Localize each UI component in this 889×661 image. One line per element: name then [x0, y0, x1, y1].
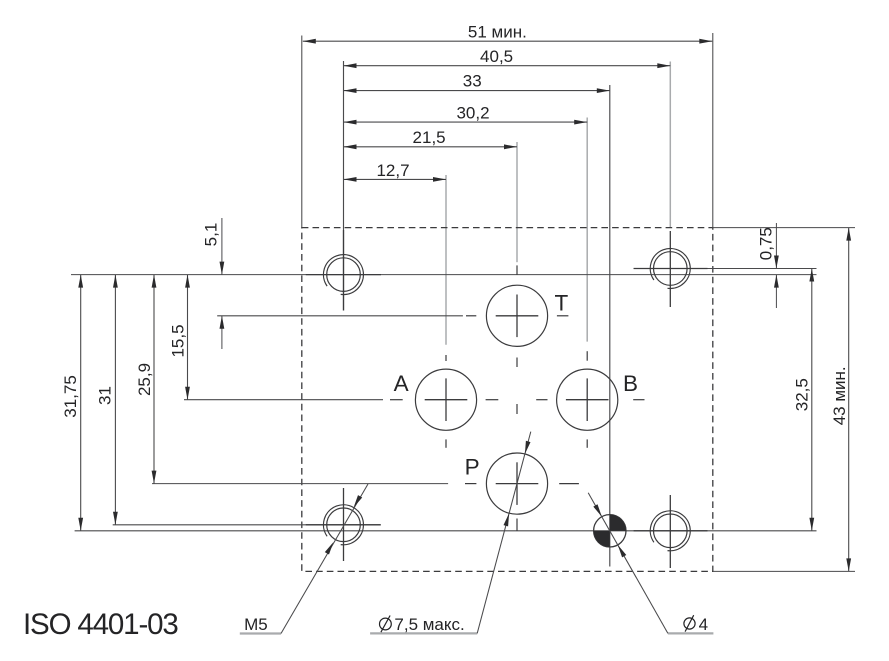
- port A circle: [415, 369, 476, 430]
- dimension line 51 min: [303, 40, 713, 42]
- plate top edge extension to right: [713, 227, 855, 229]
- plate bottom edge extension to right: [713, 570, 855, 572]
- dimension line 33: [344, 90, 610, 92]
- plate outline (dashed mounting surface boundary): [302, 228, 713, 572]
- mounting hole bottom-left (M5): [323, 505, 363, 545]
- dimension line 30.2: [344, 121, 588, 123]
- svg-text:33: 33: [463, 72, 482, 91]
- svg-text:A: A: [394, 371, 409, 396]
- extension line for 30.2 dim (port B centerline): [586, 118, 588, 342]
- extension line for 21.5 dim (port T centerline): [516, 142, 518, 262]
- mounting hole top-left (M5): [323, 255, 363, 295]
- dimension line 0.75 (outside arrows): [775, 223, 777, 269]
- centerline dash above port T: [516, 265, 518, 275]
- crosshair bottom-right hole: [669, 495, 671, 568]
- centerline dash right of port B: [633, 399, 644, 401]
- port P circle: [486, 453, 547, 514]
- centerline dash above port A: [445, 355, 447, 361]
- horizontal extension line port P: [152, 483, 448, 485]
- locating pin hole (diam 4, quadrant-filled): [594, 515, 626, 547]
- mounting hole top-right (M5): [650, 248, 690, 288]
- svg-text:40,5: 40,5: [480, 47, 513, 66]
- centerline dash below port T: [516, 358, 518, 368]
- horizontal extension line port T: [217, 315, 463, 317]
- svg-text:ISO 4401-03: ISO 4401-03: [23, 608, 178, 641]
- centerline dash right of port P: [559, 483, 579, 485]
- dimension line 31.75: [80, 275, 82, 531]
- extension line for 51 dim left (plate edge): [301, 36, 303, 228]
- dimension line 31: [114, 275, 116, 525]
- dimension line 40.5: [344, 65, 671, 67]
- leader diam 4 to pin hole: [588, 493, 668, 634]
- extension line for 40.5 dim (top-right hole centerline): [669, 62, 671, 228]
- port B circle: [557, 369, 618, 430]
- crosshair bottom-left hole: [343, 488, 345, 561]
- svg-text:25,9: 25,9: [135, 363, 154, 396]
- svg-text:5,1: 5,1: [202, 223, 221, 247]
- svg-text:32,5: 32,5: [793, 378, 812, 411]
- svg-text:51 мин.: 51 мин.: [468, 23, 527, 42]
- crosshair top-right hole: [669, 231, 671, 307]
- dimension line 21.5: [344, 146, 518, 148]
- svg-text:7,5 макс.: 7,5 макс.: [394, 615, 464, 634]
- centerline dash between T and P: [516, 404, 518, 414]
- horizontal line through pin and bottom-right hole (31.75 dim): [75, 530, 817, 532]
- centerline dash below port P: [516, 519, 518, 532]
- leader underline for M5 label: [240, 632, 281, 634]
- dimension line 15.5: [187, 275, 189, 400]
- common left extension line through top-left hole: [343, 61, 345, 311]
- svg-text:T: T: [555, 291, 569, 316]
- port T circle: [486, 285, 547, 346]
- extension line for 51 dim right (plate edge): [712, 33, 714, 228]
- leader M5 to bottom-left hole: [281, 484, 368, 634]
- centerline dash below port A: [445, 439, 447, 447]
- svg-text:30,2: 30,2: [456, 103, 489, 122]
- svg-text:P: P: [465, 454, 480, 479]
- extension line through pin hole (33 dim): [609, 85, 611, 567]
- horizontal centerline through top-right hole (0.75 offset): [634, 268, 817, 270]
- dimension line 43 min: [848, 228, 850, 572]
- horizontal extension line ports A-B: [184, 399, 383, 401]
- svg-text:43 мин.: 43 мин.: [830, 366, 849, 425]
- svg-text:M5: M5: [244, 615, 268, 634]
- svg-text:31: 31: [96, 386, 115, 405]
- crosshair top-left hole: [343, 230, 345, 311]
- dimension line 5.1 (outside arrows): [221, 218, 223, 275]
- svg-text:12,7: 12,7: [376, 161, 409, 180]
- label diam 4 symbol: [684, 615, 695, 631]
- centerline dash left of port P: [465, 483, 476, 485]
- dimension line 32.5: [811, 269, 813, 531]
- centerline dash above port B: [586, 351, 588, 361]
- horizontal extension line bottom-left hole (31 dim): [113, 524, 381, 526]
- svg-text:0,75: 0,75: [757, 227, 776, 260]
- svg-text:21,5: 21,5: [413, 128, 446, 147]
- centerline dash left of port B: [536, 399, 547, 401]
- dimension line 12.7: [344, 178, 447, 180]
- label diam 7.5 max symbol: [380, 616, 392, 633]
- centerline dash right of port T: [557, 315, 569, 317]
- dimension line 25.9: [153, 275, 155, 484]
- centerline dash right of port A: [486, 399, 499, 401]
- svg-text:4: 4: [699, 615, 708, 634]
- mounting hole bottom-right (M5): [650, 511, 690, 551]
- centerline dash below port B: [586, 439, 588, 447]
- extension line for 12.7 dim (port A centerline): [445, 175, 447, 345]
- svg-text:31,75: 31,75: [61, 375, 80, 418]
- leader diam 7.5 to port P: [477, 432, 531, 634]
- leader underline for diam 7.5 label: [370, 632, 477, 634]
- svg-text:15,5: 15,5: [169, 324, 188, 357]
- centerline dash left of port T: [466, 315, 476, 317]
- horizontal reference line through top-left hole (datum): [71, 274, 817, 276]
- svg-text:B: B: [623, 371, 638, 396]
- centerline dash left of port A: [390, 399, 403, 401]
- leader underline for diam 4 label: [668, 632, 714, 634]
